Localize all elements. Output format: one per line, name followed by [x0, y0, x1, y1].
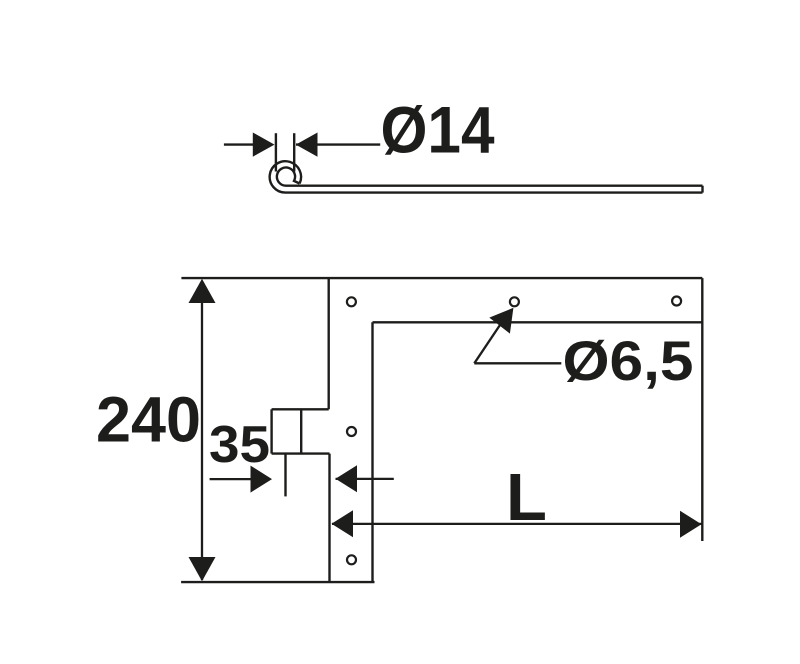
plan view: plate left edge upper	[328, 278, 330, 409]
eye tab left edge	[270, 409, 272, 453]
leader O6.5 horizontal	[474, 362, 561, 364]
arrow L right (points right)	[680, 511, 702, 538]
plan view: plate bottom edge with left extension	[181, 581, 374, 583]
plan view: right edge + L extension	[701, 278, 703, 541]
band side view: top edge + rolled eye inner spiral	[277, 168, 703, 186]
band side view: bottom edge + eye outer curl	[270, 161, 703, 192]
dim line 35 right segment	[336, 478, 394, 480]
hole band right	[672, 297, 681, 306]
hole band left O6.5	[510, 297, 519, 306]
arrow O14 left (points right)	[253, 133, 275, 157]
svg-text:L: L	[506, 460, 547, 535]
svg-text:35: 35	[209, 416, 270, 474]
plan view: plate right edge	[371, 322, 373, 582]
dim line 35 left segment	[210, 478, 252, 480]
arrow 240 bottom (points down)	[189, 557, 216, 581]
eye tab top edge	[272, 408, 329, 410]
svg-text:240: 240	[96, 384, 201, 456]
plate left edge lower	[328, 454, 330, 582]
hole plate top	[347, 297, 356, 306]
eye tab bottom edge	[272, 452, 330, 454]
hole plate bottom	[347, 555, 356, 564]
arrow 240 top (points up)	[189, 279, 216, 303]
eye tab middle line	[300, 409, 302, 453]
leader O6.5 diagonal	[474, 322, 502, 363]
plan view: top edge line with left extension	[181, 277, 702, 279]
arrow O14 right (points left)	[296, 133, 318, 157]
band right end cap	[701, 186, 703, 193]
svg-text:Ø6,5: Ø6,5	[563, 329, 694, 392]
arrow 35 left (points right)	[251, 466, 273, 493]
35 extension tick	[284, 454, 286, 497]
arrow 35 right (points left)	[336, 465, 358, 492]
arrow leader O6.5 (points up-right)	[489, 308, 513, 334]
extension line left of eye bore	[275, 133, 277, 171]
svg-text:Ø14: Ø14	[381, 92, 495, 166]
arrow L left (points left)	[332, 510, 354, 537]
dim line O14 right segment	[296, 143, 380, 145]
plan view: band lower edge	[373, 321, 703, 323]
dim line 240 vertical	[201, 281, 203, 580]
dim line O14 left segment	[224, 143, 254, 145]
extension line right of eye bore	[293, 133, 295, 171]
hole plate middle	[347, 427, 356, 436]
dim line L	[332, 523, 702, 525]
